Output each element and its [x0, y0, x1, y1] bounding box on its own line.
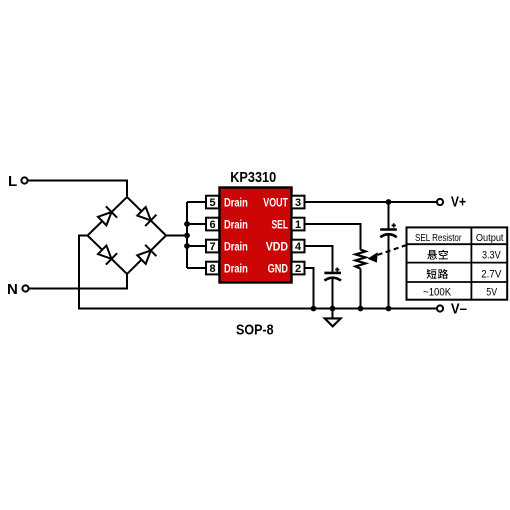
wire V+ to capacitor C1 [388, 202, 390, 230]
junction C1 top [386, 199, 392, 205]
wire C1 to V- rail [388, 233, 390, 308]
wire resistor to V- rail [360, 269, 362, 309]
svg-text:SEL: SEL [272, 219, 289, 231]
pin 5 box [206, 196, 219, 209]
svg-text:8: 8 [209, 263, 215, 275]
svg-text:5V: 5V [486, 286, 497, 298]
wire pin4 VDD to capacitor C2 [305, 246, 333, 272]
table SEL resistor options [407, 227, 508, 299]
junction C1 rail [386, 306, 392, 312]
terminal V- [437, 301, 467, 317]
pin 4 box [292, 240, 305, 253]
diode D4 bottom-right [136, 245, 156, 266]
svg-text:Drain: Drain [224, 197, 248, 209]
terminal V+ [437, 195, 466, 211]
junction resistor rail [358, 306, 364, 312]
svg-text:2: 2 [295, 263, 301, 275]
wire N to bridge bottom [29, 274, 127, 289]
junction C2 rail [330, 306, 336, 312]
table cell duanlu [427, 269, 449, 279]
capacitor C2 [324, 268, 341, 281]
wire pin2 GND down to rail [305, 268, 314, 309]
pin 7 box [206, 240, 219, 253]
svg-text:Drain: Drain [224, 219, 248, 231]
diode D2 top-right [136, 206, 156, 227]
pin 2 box [292, 262, 305, 275]
svg-text:GND: GND [268, 263, 288, 275]
junction pin2 rail [311, 306, 317, 312]
junction pin7 bus [184, 243, 190, 249]
pin 1 box [292, 218, 305, 231]
junction pin6 bus [184, 221, 190, 227]
svg-text:KP3310: KP3310 [230, 170, 276, 186]
table cell xuankong [427, 250, 448, 260]
svg-text:3.3V: 3.3V [482, 249, 501, 261]
svg-text:2.7V: 2.7V [481, 269, 502, 281]
wire L to bridge top [28, 181, 127, 197]
dashed arrow from table to resistor [368, 245, 407, 263]
wire pin bus vertical [186, 202, 188, 268]
svg-text:6: 6 [209, 219, 215, 231]
wire bridge right vertex to pin bus [166, 235, 187, 237]
capacitor C1 [380, 223, 397, 237]
svg-text:V–: V– [451, 301, 467, 317]
svg-text:L: L [8, 173, 17, 190]
ground symbol [325, 309, 341, 327]
bridge rectifier diamond [88, 197, 167, 274]
svg-text:~100K: ~100K [423, 286, 452, 298]
svg-text:SOP-8: SOP-8 [236, 323, 274, 339]
terminal N [7, 281, 29, 298]
resistor R1 zigzag [356, 250, 366, 269]
pin 3 box [292, 196, 305, 209]
svg-text:Drain: Drain [224, 241, 248, 253]
svg-text:7: 7 [209, 241, 215, 253]
wire C2 to V- rail [332, 277, 334, 309]
op IC U1 KP3310 body [220, 188, 292, 283]
svg-text:VDD: VDD [266, 241, 288, 253]
pin 8 box [206, 262, 219, 275]
wire stub pin 7 [187, 245, 206, 247]
diode D3 bottom-left [97, 244, 117, 265]
svg-text:SEL Resistor: SEL Resistor [415, 233, 462, 244]
svg-text:N: N [7, 281, 18, 298]
svg-text:Drain: Drain [224, 263, 248, 275]
svg-text:Output: Output [476, 233, 504, 244]
wire stub pin 5 [187, 201, 206, 203]
svg-text:VOUT: VOUT [263, 197, 288, 209]
terminal L [8, 173, 28, 190]
wire stub pin 6 [187, 223, 206, 225]
svg-text:3: 3 [295, 197, 301, 209]
svg-text:4: 4 [295, 241, 302, 253]
wire bridge left vertex to V- rail [79, 236, 437, 309]
wire pin1 SEL to resistor [305, 224, 361, 250]
svg-text:V+: V+ [451, 195, 466, 211]
svg-text:5: 5 [209, 197, 215, 209]
diode D1 top-left [97, 206, 117, 227]
wire stub pin 8 [187, 267, 206, 269]
svg-text:1: 1 [295, 219, 301, 231]
junction bus bridge [184, 233, 190, 239]
pin 6 box [206, 218, 219, 231]
wire pin3 VOUT to V+ [305, 201, 437, 203]
